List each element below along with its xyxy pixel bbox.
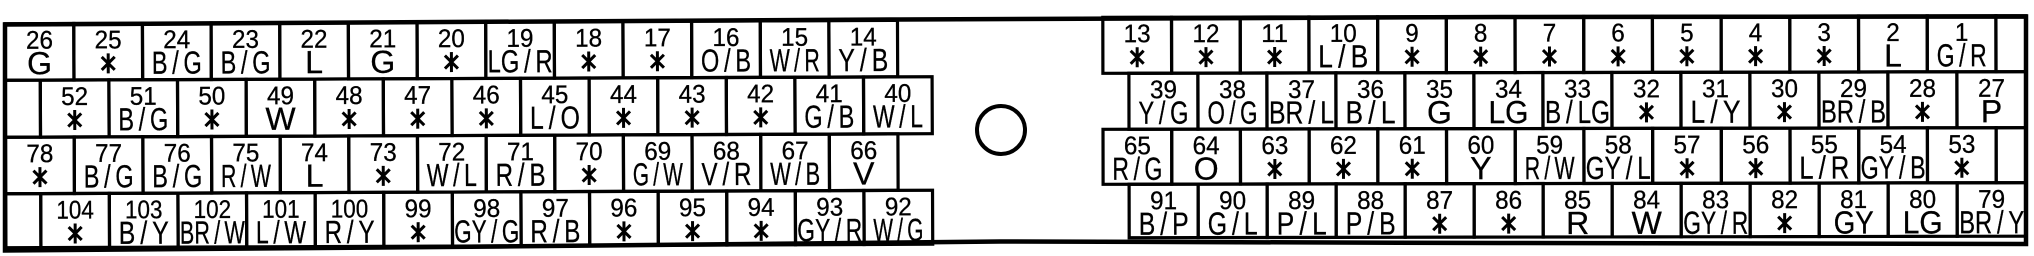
svg-text:99: 99 [405,195,432,223]
svg-text:B / L: B / L [1345,94,1395,130]
svg-text:BR / Y: BR / Y [1959,204,2024,240]
pin 53 asterisk (no connection) [1955,158,1968,178]
svg-text:GY / G: GY / G [454,213,519,249]
pin 52 asterisk (no connection) [68,110,81,130]
svg-text:57: 57 [1674,131,1701,159]
svg-text:32: 32 [1633,75,1660,103]
svg-text:P / L: P / L [1277,205,1327,241]
pin 47 asterisk (no connection) [411,109,424,129]
svg-text:W / G: W / G [873,212,923,248]
pin 86 asterisk (no connection) [1502,214,1515,234]
svg-text:W / L: W / L [427,157,477,193]
svg-text:G: G [370,44,395,80]
pin 44 box (no wire) [589,78,658,135]
pin 43 asterisk (no connection) [686,108,699,128]
svg-text:GY / B: GY / B [1861,149,1926,185]
empty half cell row 4 left [6,194,41,248]
pin 30 box (no wire) [1750,72,1819,128]
svg-text:52: 52 [61,83,88,111]
svg-text:53: 53 [1948,131,1975,159]
svg-text:42: 42 [747,80,774,108]
pin 95 asterisk (no connection) [686,221,699,241]
pin 13 asterisk (no connection) [1131,47,1144,67]
pin 98 box (GY/G) [452,192,521,250]
pin 51 box (B/G) [109,80,178,138]
svg-text:82: 82 [1771,186,1798,214]
pin 66 box (V) [829,134,898,192]
svg-text:L: L [306,158,324,194]
pin 40 box (W/L) [863,77,932,135]
pin 62 asterisk (no connection) [1337,159,1350,179]
pin 79 box (BR/Y) [1957,183,2026,241]
pin 89 box (P/L) [1267,184,1336,242]
svg-text:B / G: B / G [220,44,270,80]
svg-text:BR / L: BR / L [1269,94,1334,130]
svg-text:62: 62 [1330,132,1357,160]
right pin block (pins 1-13, 27-39, 53-65, 79-91) [1103,16,2026,242]
svg-text:W / R: W / R [770,42,820,78]
pin 5 asterisk (no connection) [1680,46,1693,66]
pin 53 box (no wire) [1927,128,1996,183]
pin 12 box (no wire) [1172,17,1241,73]
svg-text:47: 47 [404,82,431,110]
pin 22 box (L) [280,22,349,80]
svg-text:R / B: R / B [530,213,580,249]
svg-text:R / W: R / W [1525,150,1576,186]
pin 26 box (G) [5,24,74,82]
svg-text:B / Y: B / Y [119,215,169,251]
pin 99 asterisk (no connection) [412,222,425,242]
svg-text:25: 25 [95,26,122,54]
pin 63 asterisk (no connection) [1268,159,1281,179]
empty half cell row 1 right [1996,16,2026,72]
pin 25 asterisk (no connection) [102,53,115,73]
svg-text:G / W: G / W [633,156,684,192]
svg-text:W / L: W / L [873,98,923,134]
pin 60 box (Y) [1447,129,1516,187]
empty half cell row 3 right [1996,128,2026,183]
pin 34 box (LG) [1474,73,1543,131]
svg-text:O / G: O / G [1207,95,1257,131]
pin 72 box (W/L) [417,135,486,193]
svg-text:GY / R: GY / R [797,212,862,248]
pin 18 asterisk (no connection) [582,52,595,72]
svg-text:9: 9 [1405,20,1419,48]
svg-text:L / Y: L / Y [1690,94,1740,130]
pin 81 box (GY) [1819,183,1888,241]
pin 46 asterisk (no connection) [480,108,493,128]
svg-text:L: L [1884,37,1902,73]
pin 56 box (no wire) [1721,128,1790,183]
pin 32 asterisk (no connection) [1640,102,1653,122]
pin 99 box (no wire) [384,192,453,246]
pin 12 asterisk (no connection) [1199,47,1212,67]
svg-text:O / B: O / B [701,42,751,78]
svg-text:G: G [1427,94,1452,130]
svg-text:94: 94 [748,194,775,222]
pin 37 box (BR/L) [1267,73,1336,131]
pin 94 box (no wire) [727,191,796,245]
svg-text:R: R [1566,205,1589,241]
pin 49 box (W) [246,79,315,137]
svg-text:B / G: B / G [152,158,202,194]
pin 95 box (no wire) [658,191,727,245]
svg-text:L / W: L / W [256,214,307,250]
svg-text:G / R: G / R [1937,37,1987,73]
svg-text:LG / R: LG / R [488,43,553,79]
pin 19 box (LG/R) [486,22,555,80]
pin 9 asterisk (no connection) [1406,47,1419,67]
svg-text:17: 17 [644,24,671,52]
svg-text:86: 86 [1495,187,1522,215]
svg-text:B / P: B / P [1139,206,1189,242]
pin 25 box (no wire) [74,23,143,80]
pin 70 asterisk (no connection) [583,165,596,185]
pin 20 box (no wire) [417,22,486,79]
pin 68 box (V/R) [692,134,761,192]
svg-text:O: O [1194,151,1219,187]
pin 43 box (no wire) [658,78,727,135]
pin 104 asterisk (no connection) [69,223,82,243]
svg-text:W: W [265,101,296,137]
pin 4 box (no wire) [1721,16,1790,72]
svg-text:11: 11 [1261,20,1288,48]
svg-text:L: L [305,44,323,80]
pin 6 box (no wire) [1584,16,1653,72]
svg-text:P: P [1981,93,2002,129]
pin 102 box (BR/W) [178,193,247,251]
pin 92 box (W/G) [864,190,933,248]
svg-text:R / W: R / W [221,158,272,194]
pin 55 box (L/R) [1790,128,1859,186]
pin 11 asterisk (no connection) [1268,47,1281,67]
svg-text:95: 95 [679,194,706,222]
pin 27 box (P) [1957,72,2026,130]
pin 74 box (L) [280,136,349,194]
pin 67 box (W/B) [761,134,830,192]
pin 50 box (no wire) [177,79,246,136]
pin 42 box (no wire) [726,77,795,134]
pin 24 box (B/G) [142,23,211,81]
pin 14 box (Y/B) [829,20,898,78]
pin 61 asterisk (no connection) [1406,159,1419,179]
pin 4 asterisk (no connection) [1749,46,1762,66]
svg-text:Y: Y [1470,150,1491,186]
pin 13 box (no wire) [1103,17,1172,73]
svg-text:R / G: R / G [1112,151,1162,187]
pin 90 box (G/L) [1198,184,1267,242]
svg-text:12: 12 [1192,20,1219,48]
pin 70 box (no wire) [555,135,624,192]
pin 87 asterisk (no connection) [1433,214,1446,234]
svg-text:LG: LG [1488,94,1528,130]
pin 10 box (L/B) [1309,17,1378,75]
pin 96 box (no wire) [590,191,659,245]
svg-text:104: 104 [56,196,94,224]
pin 16 box (O/B) [692,21,761,79]
svg-text:28: 28 [1909,75,1936,103]
svg-text:G / B: G / B [804,99,854,135]
svg-text:R / Y: R / Y [325,214,375,250]
pin 21 box (G) [348,22,417,80]
svg-text:96: 96 [610,194,637,222]
pin 48 box (no wire) [315,79,384,136]
pin 88 box (P/B) [1336,184,1405,242]
svg-text:W / B: W / B [770,156,820,192]
pin 73 box (no wire) [349,136,418,193]
svg-text:G / L: G / L [1208,206,1258,242]
pin 8 box (no wire) [1446,17,1515,73]
pin 85 box (R) [1543,183,1612,241]
svg-text:44: 44 [610,81,637,109]
pin 57 asterisk (no connection) [1681,158,1694,178]
pin 47 box (no wire) [383,79,452,136]
svg-text:43: 43 [678,81,705,109]
pin 56 asterisk (no connection) [1749,158,1762,178]
pin 73 asterisk (no connection) [377,166,390,186]
pin 93 box (GY/R) [795,190,864,248]
svg-text:BR / B: BR / B [1821,93,1886,129]
pin 2 box (L) [1859,16,1928,74]
pin 28 box (no wire) [1888,72,1957,128]
pin 32 box (no wire) [1612,72,1681,128]
pin 76 box (B/G) [143,136,212,194]
svg-text:50: 50 [198,82,225,110]
pin 36 box (B/L) [1336,73,1405,131]
pin 3 asterisk (no connection) [1818,46,1831,66]
pin 29 box (BR/B) [1819,72,1888,130]
svg-text:BR / W: BR / W [180,214,246,250]
pin 101 box (L/W) [247,193,316,251]
svg-text:5: 5 [1680,19,1694,47]
svg-text:63: 63 [1261,132,1288,160]
svg-text:R / B: R / B [495,157,545,193]
svg-text:GY / R: GY / R [1683,205,1748,241]
pin 38 box (O/G) [1198,73,1267,131]
pin 62 box (no wire) [1309,129,1378,184]
pin 97 box (R/B) [521,192,590,250]
pin 87 box (no wire) [1405,184,1474,238]
pin 5 box (no wire) [1652,16,1721,72]
pin 71 box (R/B) [486,135,555,193]
svg-text:56: 56 [1742,131,1769,159]
pin 69 box (G/W) [623,135,692,193]
svg-text:L / O: L / O [530,100,580,136]
pin 41 box (G/B) [795,77,864,135]
svg-text:L / B: L / B [1318,38,1368,74]
pin 1 box (G/R) [1927,16,1996,74]
svg-text:20: 20 [438,25,465,53]
pin 17 box (no wire) [623,21,692,78]
pin 84 box (W) [1612,183,1681,241]
pin 42 asterisk (no connection) [754,107,767,127]
pin 20 asterisk (no connection) [445,52,458,72]
pin 77 box (B/G) [74,137,143,195]
svg-text:30: 30 [1771,75,1798,103]
left pin block (pins 14-26, 40-52, 66-78, 92-104) [5,20,933,251]
svg-text:48: 48 [335,82,362,110]
svg-text:B / G: B / G [152,45,202,81]
pin 59 box (R/W) [1515,128,1584,186]
pin 45 box (L/O) [520,78,589,136]
pin 7 asterisk (no connection) [1543,47,1556,67]
mounting bolt hole circle [977,106,1025,154]
pin 83 box (GY/R) [1681,183,1750,241]
pin 28 asterisk (no connection) [1916,102,1929,122]
svg-text:46: 46 [473,81,500,109]
pin 54 box (GY/B) [1859,128,1928,186]
pin 50 asterisk (no connection) [205,109,218,129]
pin 23 box (B/G) [211,23,280,81]
svg-text:3: 3 [1817,19,1831,47]
pin 58 box (GY/L) [1584,128,1653,186]
pin 57 box (no wire) [1653,128,1722,183]
svg-text:L / R: L / R [1799,150,1849,186]
svg-text:B / G: B / G [84,158,134,194]
svg-text:7: 7 [1543,20,1557,48]
svg-text:Y / B: Y / B [838,42,888,78]
pin 82 box (no wire) [1750,183,1819,237]
svg-text:8: 8 [1474,20,1488,48]
pin 86 box (no wire) [1474,184,1543,238]
pin 91 box (B/P) [1129,184,1198,242]
svg-text:Y / G: Y / G [1138,95,1188,131]
pin 100 box (R/Y) [315,192,384,250]
pin 3 box (no wire) [1790,16,1859,72]
pin 61 box (no wire) [1378,129,1447,184]
pin 44 asterisk (no connection) [617,108,630,128]
pin 63 box (no wire) [1240,129,1309,184]
svg-text:4: 4 [1749,19,1763,47]
pin 15 box (W/R) [760,21,829,79]
pin 33 box (B/LG) [1543,72,1612,130]
svg-text:B / LG: B / LG [1545,94,1610,130]
svg-text:G: G [27,45,52,81]
pin 82 asterisk (no connection) [1778,213,1791,233]
pin 64 box (O) [1172,129,1241,187]
pin 78 box (no wire) [6,137,75,194]
pin 35 box (G) [1405,73,1474,131]
svg-text:V / R: V / R [701,156,751,192]
pin 48 asterisk (no connection) [343,109,356,129]
svg-text:B / G: B / G [118,101,168,137]
svg-text:6: 6 [1611,19,1625,47]
pin 8 asterisk (no connection) [1474,47,1487,67]
svg-text:LG: LG [1903,204,1943,240]
pin 52 box (no wire) [40,80,109,137]
svg-text:78: 78 [26,140,53,168]
svg-text:GY: GY [1834,204,1874,240]
svg-text:73: 73 [370,139,397,167]
pin 75 box (R/W) [212,136,281,194]
svg-text:87: 87 [1426,187,1453,215]
pin 31 box (L/Y) [1681,72,1750,130]
pin 103 box (B/Y) [109,193,178,251]
svg-text:GY / L: GY / L [1586,150,1651,186]
pin 39 box (Y/G) [1129,73,1198,131]
pin 11 box (no wire) [1240,17,1309,73]
svg-text:70: 70 [576,138,603,166]
pin 104 box (no wire) [41,193,110,247]
pin 18 box (no wire) [554,21,623,78]
svg-text:13: 13 [1124,20,1151,48]
empty half cell row 2 left [5,80,40,137]
pin 96 asterisk (no connection) [617,221,630,241]
svg-text:P / B: P / B [1346,205,1396,241]
pin 9 box (no wire) [1378,17,1447,73]
pin 30 asterisk (no connection) [1778,102,1791,122]
pin 46 box (no wire) [452,78,521,135]
pin 65 box (R/G) [1103,129,1172,187]
pin 6 asterisk (no connection) [1612,46,1625,66]
svg-text:V: V [853,155,875,191]
pin 17 asterisk (no connection) [651,51,664,71]
svg-text:18: 18 [575,24,602,52]
pin 94 asterisk (no connection) [755,221,768,241]
svg-text:W: W [1632,205,1663,241]
svg-text:61: 61 [1399,132,1426,160]
pin 7 box (no wire) [1515,16,1584,72]
pin 78 asterisk (no connection) [33,167,46,187]
pin 80 box (LG) [1888,183,1957,241]
